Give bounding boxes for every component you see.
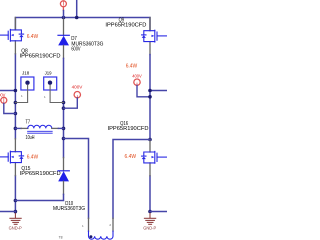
svg-text:MURS360T3G: MURS360T3G xyxy=(53,206,85,212)
node junction lrail-gnd xyxy=(14,210,18,214)
svg-text:400V: 400V xyxy=(0,92,6,97)
svg-text:6.4W: 6.4W xyxy=(126,63,138,69)
wire right rail to edge xyxy=(150,90,167,92)
wire left rail upper xyxy=(14,54,16,139)
port top xyxy=(60,1,66,11)
svg-text:GND-P: GND-P xyxy=(9,226,22,232)
wire top bus xyxy=(15,18,150,31)
svg-text:IPP65R190CFD: IPP65R190CFD xyxy=(20,54,61,60)
svg-text:400V: 400V xyxy=(72,85,84,90)
wire xfmr right lead xyxy=(113,140,150,219)
node junction mid-J19 xyxy=(62,101,66,105)
node junction rrail-gnd xyxy=(148,210,152,214)
node junction mid-T7 xyxy=(62,127,66,131)
transistor Q15 xyxy=(0,139,24,176)
node junction rrail-xfmr xyxy=(148,138,152,142)
svg-text:600V: 600V xyxy=(71,46,80,52)
svg-text:IPP65R190CFD: IPP65R190CFD xyxy=(108,126,149,132)
node junction mid-xfmr xyxy=(62,137,66,141)
svg-text:400V: 400V xyxy=(132,74,142,79)
svg-text:6.4W: 6.4W xyxy=(27,34,39,40)
wire xfmr left lead xyxy=(64,139,89,219)
svg-text:T7: T7 xyxy=(26,120,31,126)
node junction rrail-edge xyxy=(148,89,152,93)
svg-text:10uH: 10uH xyxy=(26,135,35,141)
ground GND-P left xyxy=(10,213,21,224)
node junction lrail-90 xyxy=(14,89,18,93)
wire 400V-mid to rail xyxy=(64,98,78,108)
wire right rail lower xyxy=(149,176,151,212)
wire right bottom to edge xyxy=(150,211,167,213)
svg-text:6.4W: 6.4W xyxy=(27,155,39,161)
wire left rail lower xyxy=(14,176,16,213)
connector J18 xyxy=(15,77,34,103)
svg-text:IPP65R190CFD: IPP65R190CFD xyxy=(20,171,61,177)
node junction lrail-T7 xyxy=(14,127,18,131)
svg-text:GND-P: GND-P xyxy=(143,226,156,232)
node junction rrail-400V xyxy=(148,95,152,99)
transistor Q16 (mirrored) xyxy=(142,139,167,176)
wire xfmr right pin stub xyxy=(112,218,114,231)
wire 400V-left to rail xyxy=(4,103,16,113)
svg-text:J19: J19 xyxy=(45,70,52,75)
wire xfmr left pin stub xyxy=(88,218,90,231)
wire port top stem xyxy=(63,11,65,18)
port 400V left xyxy=(0,97,7,103)
wire right rail upper xyxy=(149,55,151,139)
wire mid rail xyxy=(63,58,65,157)
node junction lrail-J18 xyxy=(14,101,18,105)
wire stub up from bus xyxy=(76,0,78,18)
port 400V right xyxy=(134,79,140,85)
inductor T7 xyxy=(15,125,63,133)
transistor Q8 xyxy=(0,18,24,54)
wire D10 anode to rail xyxy=(15,194,63,200)
wire 400V-right to rail xyxy=(137,85,150,96)
connector J19 xyxy=(44,77,64,103)
port 400V mid xyxy=(74,92,80,98)
transformer primary winding xyxy=(89,231,114,239)
ground GND-P right xyxy=(144,213,155,224)
svg-text:T8: T8 xyxy=(59,235,63,239)
node junction lrail-D10 xyxy=(14,199,18,203)
node junction bus-stub xyxy=(75,16,79,20)
transformer phase dot xyxy=(89,235,92,238)
svg-text:IPP65R190CFD: IPP65R190CFD xyxy=(105,23,146,29)
svg-text:6.4W: 6.4W xyxy=(125,154,137,160)
wire left edge y90 xyxy=(0,90,15,92)
transistor Q9 (mirrored) xyxy=(142,18,167,55)
node junction bus-D7 xyxy=(62,16,66,20)
diode D7 xyxy=(58,19,69,58)
node junction mid-400V xyxy=(62,106,66,110)
diode D10 xyxy=(58,158,69,195)
node junction lrail-400V xyxy=(14,112,18,116)
wire left edge bottom xyxy=(0,211,15,213)
svg-text:J18: J18 xyxy=(22,70,30,75)
